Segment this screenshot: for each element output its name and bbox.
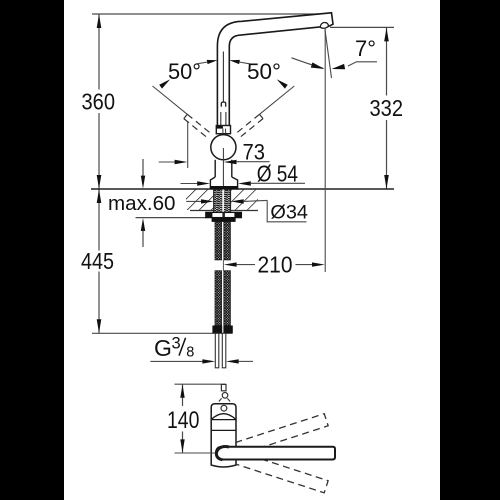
dim O34 leader left arrow bbox=[186, 200, 203, 202]
G3/8 leader right bbox=[226, 359, 239, 363]
lever tilted dashed left bbox=[184, 114, 213, 139]
neck below ball bbox=[215, 160, 232, 177]
bottom view inlet ticks bbox=[219, 398, 222, 401]
lever solid horizontal bbox=[216, 447, 335, 460]
G3/8 thread tube right bbox=[222, 333, 226, 368]
hose end nuts dark bbox=[212, 326, 232, 334]
svg-text:7°: 7° bbox=[355, 36, 376, 61]
bottom view dome arc bbox=[211, 414, 235, 420]
O34 shelf bbox=[267, 200, 306, 222]
bottom view screw circle bbox=[221, 405, 227, 411]
svg-text:445: 445 bbox=[81, 248, 114, 274]
deck top line y=189 bbox=[91, 188, 394, 190]
hose lower left bbox=[215, 271, 222, 326]
svg-text:140: 140 bbox=[167, 407, 199, 434]
white drawing sheet bbox=[64, 0, 440, 500]
G3/8 leader left bbox=[150, 360, 204, 362]
max60 underline / nut-top extension y=217.6 bbox=[136, 217, 207, 219]
svg-text:360: 360 bbox=[82, 89, 116, 115]
dim 210 line bbox=[224, 262, 237, 266]
lever hub thick cap bbox=[216, 447, 229, 460]
spout outline bbox=[217, 13, 333, 126]
dim 73 right arrow bbox=[224, 160, 237, 164]
arrow up below deck (445 top) bbox=[97, 189, 102, 203]
bottom view body bbox=[211, 404, 236, 467]
collar bbox=[210, 177, 237, 186]
ball joint bbox=[211, 135, 236, 160]
svg-text:332: 332 bbox=[370, 95, 404, 121]
spout tip extension line x=325.2 bbox=[324, 28, 326, 272]
lever base block bbox=[216, 126, 230, 134]
dim 73 left arrow bbox=[159, 161, 176, 163]
aerator nub bbox=[320, 22, 328, 28]
7 degree leader bbox=[348, 62, 377, 66]
arrow up at top ext bbox=[97, 14, 102, 28]
arrow down 332 bbox=[384, 175, 389, 189]
max60 upper arrow bbox=[142, 159, 144, 177]
bottom view nipple bbox=[221, 384, 226, 390]
7 degree tilted line bbox=[325, 28, 332, 78]
svg-text:3: 3 bbox=[172, 335, 181, 353]
threaded shank bbox=[214, 190, 231, 218]
mounting nut dark bbox=[212, 218, 236, 222]
svg-text:G: G bbox=[154, 335, 172, 361]
7 degree arc with arrow bbox=[292, 58, 324, 69]
dim 360/445 vertical dimension line x=99 bbox=[98, 14, 100, 333]
max60 lower arrow bbox=[141, 218, 145, 231]
dim 140 line bbox=[182, 384, 184, 453]
dim O34 right leader with arrow bbox=[231, 199, 244, 203]
bottom view: top extension line bbox=[175, 383, 226, 385]
50deg left solid line bbox=[153, 86, 188, 114]
lever rod inner lines bbox=[221, 52, 226, 126]
lever dashed up position bbox=[235, 414, 328, 455]
lever dashed down position bbox=[235, 452, 328, 493]
dim 332 vertical dimension line x=386.5 bbox=[386, 27, 388, 189]
bottom view bottom extension line bbox=[175, 452, 216, 454]
svg-text:Ø34: Ø34 bbox=[270, 202, 308, 224]
50deg left arc arrow bbox=[159, 79, 170, 88]
50deg right tube arrow bbox=[229, 60, 240, 64]
hose lower right bbox=[224, 271, 231, 326]
washer plate bbox=[206, 212, 242, 217]
arrow up 332 bbox=[384, 28, 389, 42]
arrow down at deck bbox=[97, 175, 102, 189]
lever tilted dashed right bbox=[234, 114, 263, 139]
svg-text:8: 8 bbox=[186, 345, 194, 361]
G3/8 thread tube left bbox=[215, 333, 219, 368]
svg-text:210: 210 bbox=[258, 252, 293, 278]
arrow down at hose end (445 bottom) bbox=[97, 319, 102, 333]
dim O54 line and arrows bbox=[181, 183, 199, 185]
hatch left band bbox=[186, 190, 214, 210]
deck bottom line y=210.5 bbox=[190, 210, 258, 212]
svg-text:Ø 54: Ø 54 bbox=[257, 161, 298, 187]
svg-text:50°: 50° bbox=[247, 59, 281, 84]
top extension line y=14 bbox=[92, 13, 320, 15]
top-right extension line y=27.4 bbox=[330, 26, 394, 28]
dim 73 extension line from lever end bbox=[187, 121, 189, 168]
rod break symbol bbox=[221, 102, 225, 107]
bottom view band line bbox=[211, 429, 236, 431]
svg-text:max.60: max.60 bbox=[108, 193, 176, 215]
axis line through ball to deck bbox=[222, 148, 224, 189]
bottom extension line y=333.3 bbox=[92, 332, 233, 334]
hose upper left bbox=[215, 222, 222, 260]
svg-text:50°: 50° bbox=[168, 59, 201, 84]
axis line in hose break bbox=[222, 260, 224, 271]
bottom view small circle under nipple bbox=[222, 393, 228, 399]
hose upper right bbox=[224, 222, 231, 260]
50deg left tube arrow bbox=[197, 62, 208, 64]
50deg right solid line bbox=[260, 86, 295, 114]
hatch right band bbox=[231, 190, 258, 210]
flange dark bbox=[210, 186, 239, 189]
50deg right arc arrow bbox=[277, 79, 288, 88]
